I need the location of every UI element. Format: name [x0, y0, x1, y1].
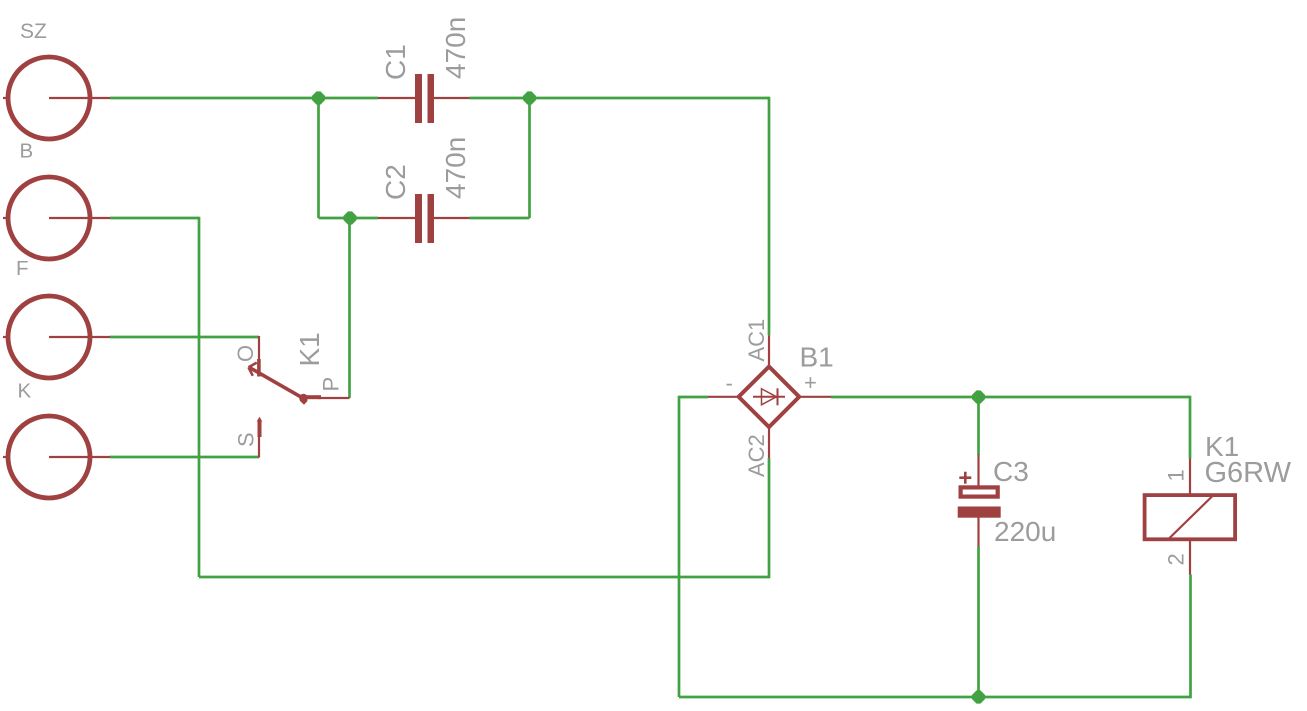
wire net P up	[348, 218, 351, 398]
bridge rectifier B1	[708, 335, 831, 458]
svg-text:470n: 470n	[440, 137, 471, 199]
svg-text:C2: C2	[380, 164, 411, 200]
svg-text:B: B	[20, 140, 34, 163]
svg-text:K: K	[18, 380, 32, 403]
svg-text:O: O	[233, 345, 258, 362]
wire net K row	[110, 336, 259, 339]
junction dot bottom	[972, 690, 985, 703]
wire C2 row	[319, 217, 530, 220]
svg-text:+: +	[804, 370, 817, 395]
svg-text:SZ: SZ	[20, 20, 47, 43]
svg-text:F: F	[16, 257, 29, 280]
junction dot plus rail	[972, 390, 985, 403]
junction dot top-left	[312, 91, 325, 104]
svg-text:G6RW: G6RW	[1205, 457, 1292, 489]
svg-text:470n: 470n	[440, 17, 471, 79]
wire net F row	[110, 217, 769, 579]
svg-text:B1: B1	[800, 342, 834, 373]
capacitor C2	[378, 194, 470, 243]
wire net plus rail	[831, 396, 1190, 459]
wire branch left parallel	[317, 98, 320, 218]
capacitor C3 (polarized)	[958, 455, 1001, 547]
svg-text:AC1: AC1	[744, 319, 769, 362]
svg-text:C1: C1	[380, 44, 411, 80]
svg-text:P: P	[319, 377, 344, 392]
wire net SZ top row	[110, 97, 769, 336]
relay K1 G6RW	[1145, 495, 1236, 574]
svg-text:1: 1	[1164, 469, 1189, 481]
svg-text:-: -	[726, 371, 733, 396]
svg-text:220u: 220u	[994, 516, 1056, 547]
svg-text:C3: C3	[993, 456, 1029, 487]
wire branch right parallel	[528, 98, 531, 218]
svg-text:AC2: AC2	[744, 434, 769, 477]
switch K1	[249, 336, 350, 458]
connector F	[3, 177, 110, 259]
connector K	[3, 296, 110, 378]
connector 4	[3, 416, 110, 498]
wire net minus rail	[679, 396, 1191, 699]
wire net row4	[110, 456, 259, 459]
junction dot top-right	[523, 91, 536, 104]
svg-text:S: S	[234, 432, 259, 447]
capacitor C1	[378, 74, 470, 123]
svg-text:2: 2	[1164, 553, 1189, 565]
connector SZ	[3, 57, 110, 139]
relay pin 1 lead	[1189, 459, 1191, 496]
junction dot C2 row	[343, 211, 356, 224]
svg-text:K1: K1	[294, 332, 325, 366]
